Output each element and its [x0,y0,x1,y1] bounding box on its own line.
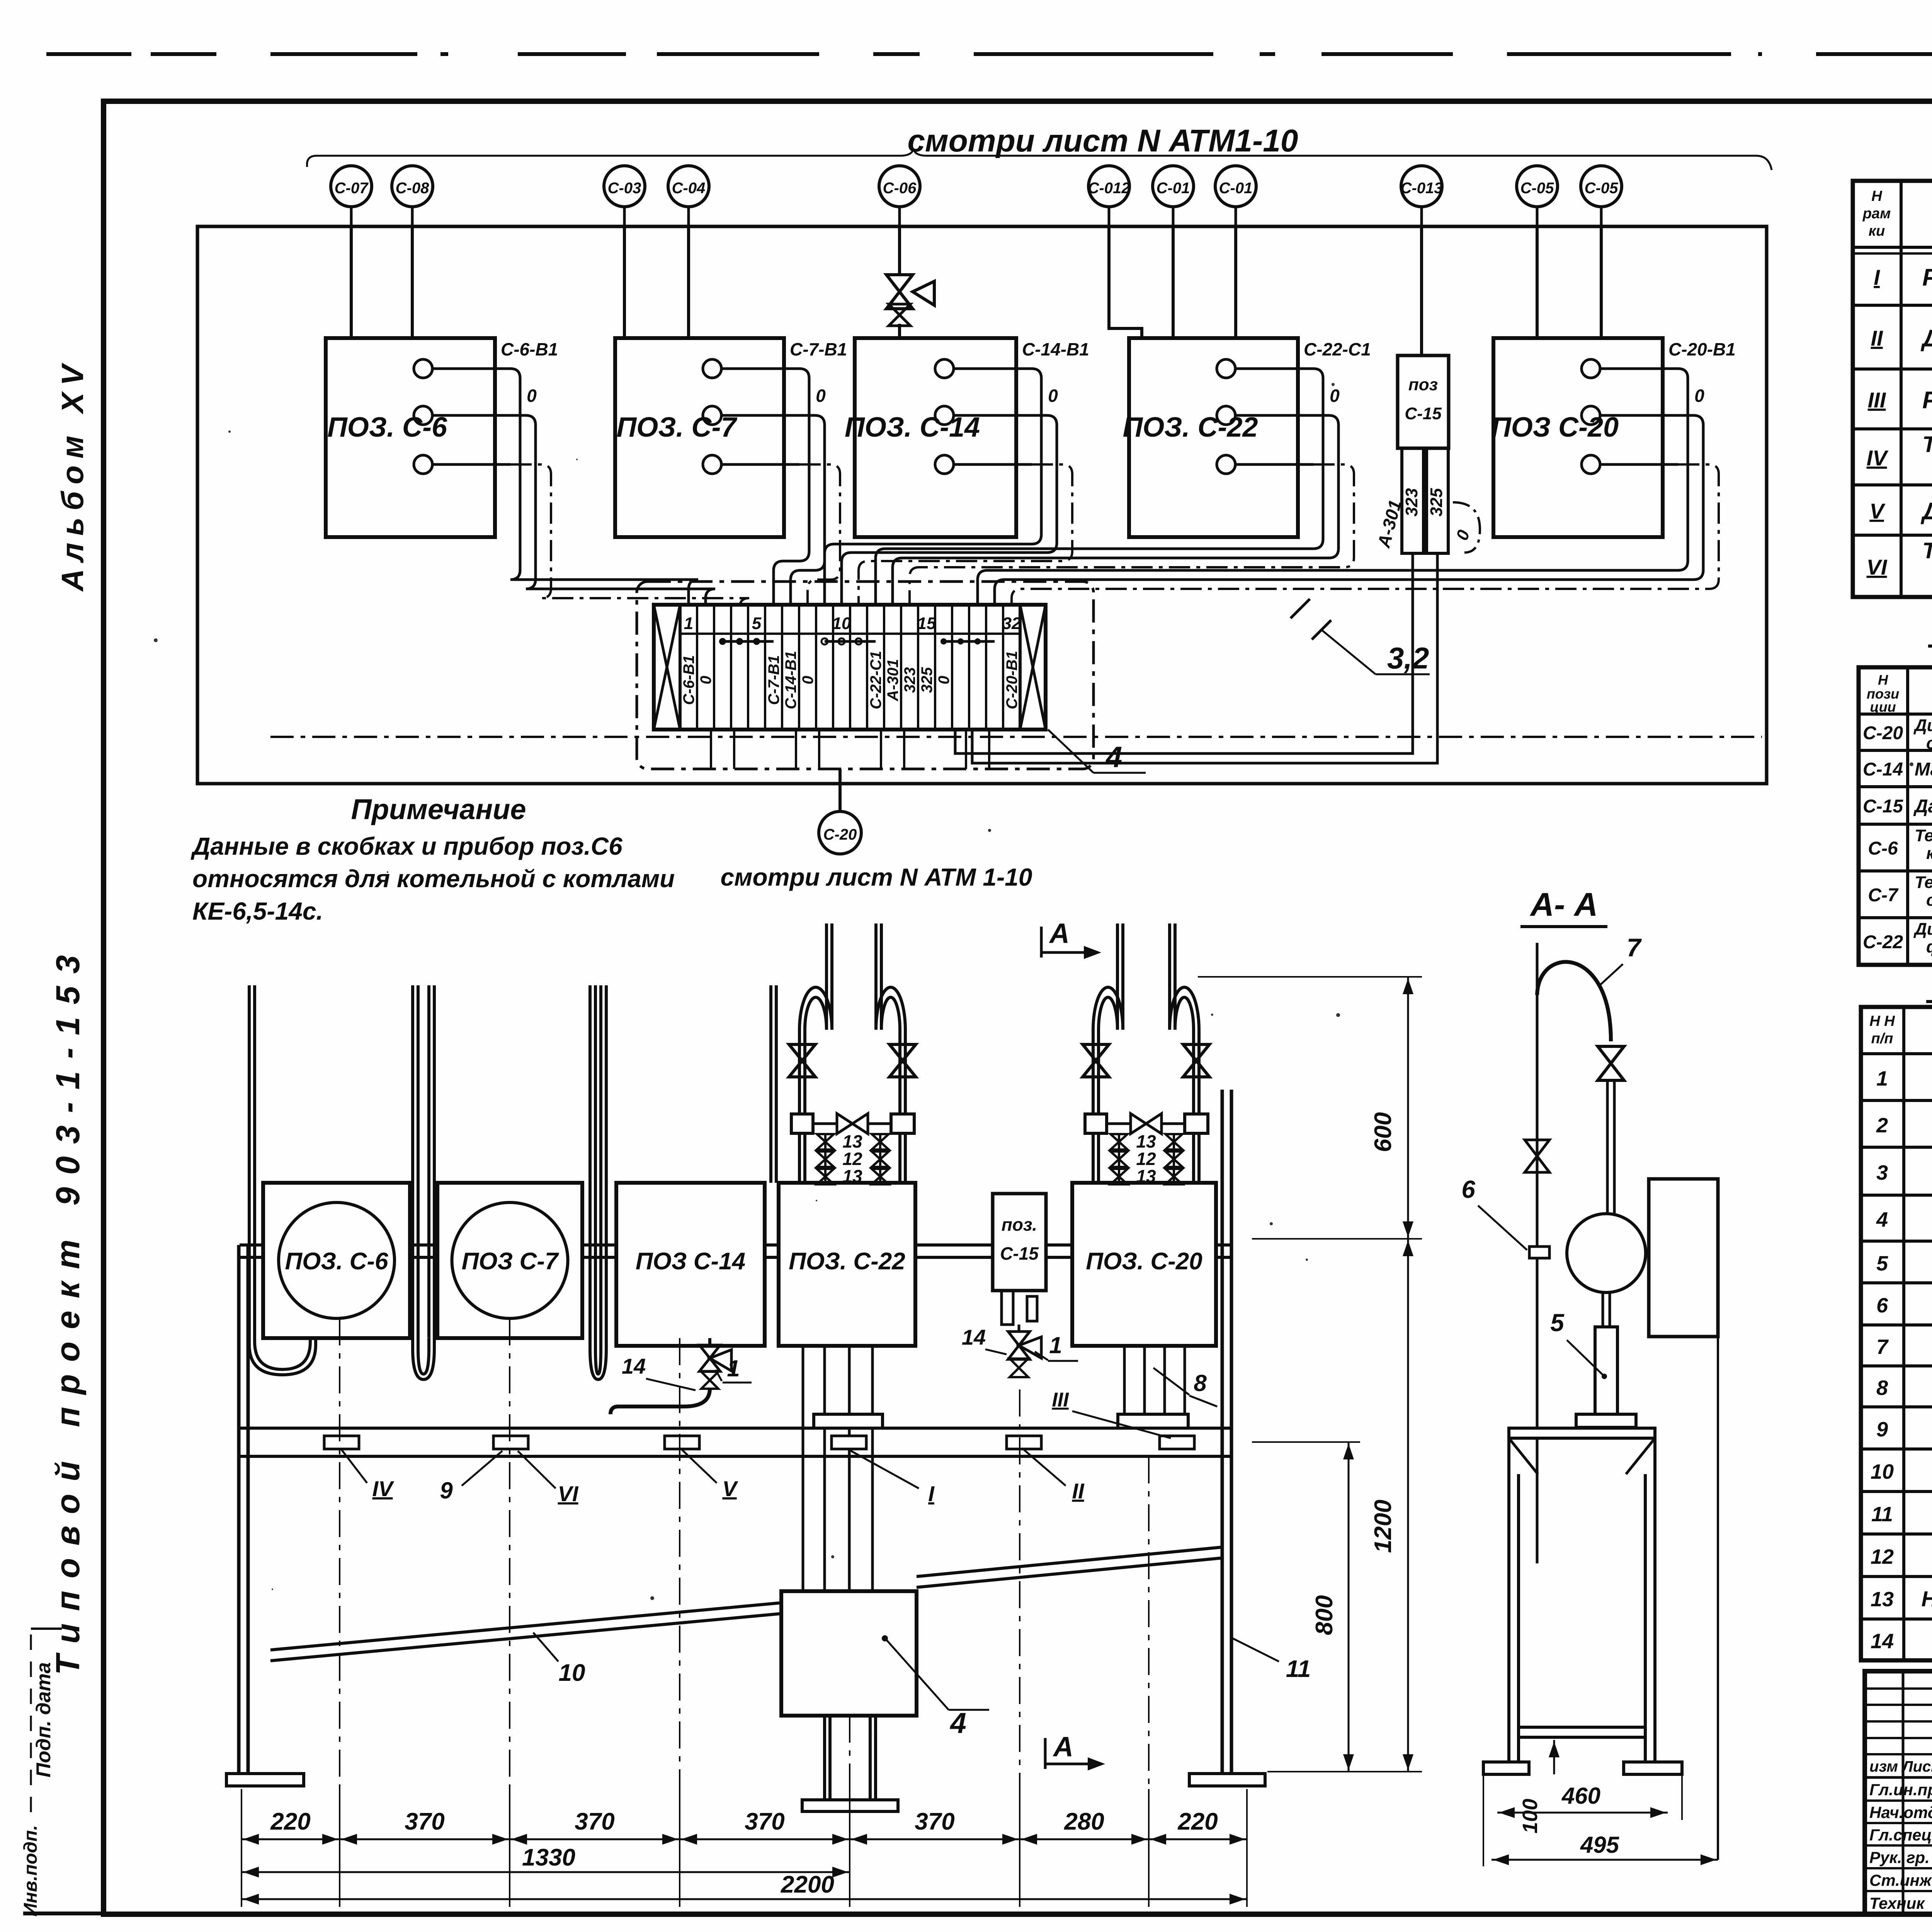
svg-text:I: I [1874,265,1880,289]
cable mark 3,2 with leader [1291,599,1310,618]
strip cell divider [798,605,800,730]
svg-text:НСВ 14х1/2 " труб: НСВ 14х1/2 " труб [1922,1587,1932,1611]
svg-text:С-013: С-013 [1401,180,1443,197]
instrument box ПОЗ. С-7 [615,338,784,537]
svg-text:Давление обратной сетевой в: Давление обратной сетевой воды [1920,498,1932,525]
instrument circle С-08 [392,166,433,207]
pipe loop between S-7 and S-14 [590,985,606,1379]
drain pipe item 11 (sloped right) [917,1547,1222,1577]
drain pipe item 10 (sloped) [270,1603,781,1650]
gooseneck arch left [799,987,832,1030]
svg-text:С-15: С-15 [1863,796,1903,817]
instrument box ПОЗ. С-14 [855,338,1016,537]
jumper group 3 [944,640,995,643]
svg-text:Данные в скобках и прибор поз: Данные в скобках и прибор поз.С6 [190,832,622,860]
svg-text:13: 13 [1871,1588,1894,1611]
strip cell divider [866,605,868,730]
svg-text:0: 0 [697,676,714,684]
supply pipes from above [1116,923,1119,1030]
svg-text:п/п: п/п [1871,1031,1893,1047]
terminal 2 of ПОЗ. С-6 [414,406,432,425]
svg-text:С-05: С-05 [1585,180,1618,197]
centerline S-14 [679,1338,680,1839]
svg-text:6: 6 [1461,1175,1475,1203]
svg-text:6: 6 [1876,1294,1888,1317]
svg-text:9: 9 [440,1478,453,1503]
title block frame [1865,1671,1932,1914]
svg-text:15: 15 [917,614,936,633]
svg-text:ПОЗ. С-6: ПОЗ. С-6 [327,412,447,443]
svg-text:С-6-В1: С-6-В1 [680,655,697,705]
wire C-01b to box S-22 [1234,226,1237,338]
A-A table top plate [1509,1428,1655,1438]
A-A riser pipe down to gauge [1606,1080,1609,1215]
svg-text:II: II [1871,326,1883,350]
strip cell divider [900,605,902,730]
scan speckles [576,459,578,460]
centerline S-6 [339,1318,340,1839]
front view box ПОЗ С-7 [437,1183,582,1338]
svg-text:Датчик-реле давления: Датчик-реле давления [1913,796,1932,817]
dimension 600 right side [1198,976,1422,978]
valve on right riser [889,1044,916,1077]
svg-text:V: V [1869,499,1886,523]
wire 0 run [995,415,1703,605]
svg-text:VI: VI [558,1481,579,1506]
table 2 frame [1859,667,1932,965]
svg-text:220: 220 [270,1808,310,1835]
svg-text:460: 460 [1561,1783,1600,1809]
svg-text:Н: Н [1878,672,1888,688]
svg-text:100: 100 [1519,1799,1542,1833]
valve on right riser [1183,1044,1209,1077]
terminal 2 of ПОЗ С-20 [1582,406,1600,425]
svg-text:Техник: Техник [1869,1894,1925,1912]
svg-text:323: 323 [901,667,918,693]
front view box poz S-15 [993,1194,1046,1291]
strip end cross right [1020,605,1046,730]
strip cell divider [730,605,732,730]
svg-text:III: III [1868,388,1886,412]
chart recorder circle of ПОЗ. С-6 [279,1202,395,1318]
gauge valve stack right [872,1134,889,1150]
svg-text:Альбом XV: Альбом XV [55,358,90,592]
svg-text:4: 4 [1105,741,1122,774]
strip cell divider [696,605,698,730]
svg-text:8: 8 [1194,1370,1207,1396]
centerline S-15 valve [1019,1389,1020,1839]
instrument circle С-01 [1153,166,1194,207]
terminal strip of junction box [654,605,1046,730]
centerline S-22 [849,1716,850,1839]
relay box poz S-15 [1398,355,1449,448]
svg-text:IV: IV [372,1476,395,1501]
dimension 1330 [241,1871,850,1873]
dimension line 220/370 row [241,1838,1247,1840]
table 1 frame [1853,181,1932,597]
svg-text:13: 13 [842,1166,862,1186]
wire dash-dot run [799,464,840,605]
svg-text:Манометр самопишущий: Манометр самопишущий [1915,759,1932,780]
terminal 3 of ПОЗ. С-7 [703,455,721,474]
svg-text:8: 8 [1876,1376,1888,1400]
svg-text:Н Н: Н Н [1869,1013,1895,1029]
svg-text:фонный самопишущий: фонный самопишущий [1926,937,1932,956]
svg-text:С-15: С-15 [1405,404,1442,423]
svg-text:С-14-В1: С-14-В1 [1022,339,1089,359]
clamp item 6 on impulse line [1529,1247,1549,1258]
svg-text:Расход пара на производство: Расход пара на производство [1922,264,1932,291]
svg-text:Дифманометр - расходомер: Дифманометр - расходомер [1913,716,1932,735]
svg-text:1330: 1330 [522,1844,575,1871]
svg-text:С-03: С-03 [608,180,641,197]
strip cell divider [1002,605,1004,730]
junction box bottom cable stubs [711,730,734,769]
terminal 2 of ПОЗ. С-14 [935,406,954,425]
wire C-08 to box S-6 [411,226,414,338]
instrument box ПОЗ. С-6 [326,338,495,537]
front view box ПОЗ. С-22 [779,1183,915,1346]
centerline S-20 [1148,1456,1150,1839]
dimension 2200 [241,1898,1247,1900]
brace line over instrument circles [307,149,1772,170]
svg-text:С-05: С-05 [1520,180,1554,197]
svg-text:ПОЗ. С-6: ПОЗ. С-6 [285,1248,388,1275]
svg-text:С-22: С-22 [1863,932,1903,952]
svg-text:2200: 2200 [781,1871,834,1898]
label 7 leader [1600,964,1623,985]
wire C-03 to box S-7 [623,226,626,338]
svg-text:С-04: С-04 [672,180,706,197]
svg-text:смотри лист N АТМ1-10: смотри лист N АТМ1-10 [907,123,1298,158]
svg-text:Ст.инж.: Ст.инж. [1869,1871,1932,1889]
wire С-20-В1 run [978,369,1688,605]
valve on left riser [789,1044,815,1077]
svg-text:9: 9 [1876,1418,1888,1441]
wire dash-dot run [859,464,1072,605]
left union [791,1114,813,1133]
svg-text:10: 10 [559,1660,585,1686]
svg-text:ПОЗ С-14: ПОЗ С-14 [636,1248,745,1275]
wire С-14-В1 run [825,369,1041,605]
svg-text:С-07: С-07 [335,180,369,197]
right rack base plate [1189,1774,1265,1786]
pipe right of S-14 [769,985,772,1183]
svg-text:1: 1 [1049,1332,1062,1358]
riser pipes [798,1030,801,1184]
A-A table left leg [1507,1438,1510,1762]
strip cell divider [747,605,749,730]
instrument box ПОЗ. С-22 [1129,338,1298,537]
wire С-6-В1 run [510,369,698,605]
jumper group 2 [825,640,876,643]
wire 0 run [893,415,1338,605]
dimension ticks and extension lines [241,1789,242,1907]
A-A extension lines bottom [1483,1774,1484,1866]
lower mounting belt [240,1427,1231,1430]
instrument circle C-20 [819,811,861,854]
svg-text:1200: 1200 [1370,1500,1396,1553]
svg-text:А: А [1049,918,1070,949]
valve on C-06 line [886,275,913,309]
upper mounting rail [240,1243,1231,1247]
svg-text:С-08: С-08 [396,180,429,197]
wire С-22-С1 run [876,369,1323,605]
A-A base plate left [1483,1762,1529,1774]
terminal 3 of ПОЗ. С-14 [935,455,954,474]
A-A stand item 5 [1595,1327,1617,1414]
A-A right extension line [1717,1337,1719,1860]
svg-text:С-7: С-7 [1868,885,1899,906]
svg-text:1: 1 [727,1355,740,1381]
A-A bend item 7 [1537,962,1611,1041]
svg-text:0: 0 [527,386,537,406]
collector box item 4 [781,1591,917,1716]
svg-text:800: 800 [1311,1595,1338,1635]
svg-text:изм: изм [1869,1758,1898,1775]
svg-text:370: 370 [915,1808,954,1835]
scan registration dashes top edge [46,52,131,56]
equalizing valve [813,1122,837,1125]
svg-text:С-20: С-20 [823,826,857,843]
svg-text:С-06: С-06 [883,180,917,197]
svg-text:2: 2 [1876,1114,1888,1137]
junction box item 4 outer dash-dot [637,582,1094,769]
strip cell divider [713,605,715,730]
terminal 3 of ПОЗ. С-22 [1217,455,1235,474]
svg-text:С-20-В1: С-20-В1 [1668,339,1736,359]
svg-text:Инв.подп.: Инв.подп. [20,1825,41,1917]
dimension 1200 right side [1407,1239,1409,1772]
right union [891,1114,914,1133]
svg-text:ПОЗ. С-7: ПОЗ. С-7 [616,412,737,443]
terminal 2 of ПОЗ. С-22 [1217,406,1235,425]
dash-dot bus through schematic [270,736,1762,738]
wire C-06 to box S-14 with valve [898,226,901,275]
svg-text:самопишущии: самопишущии [1926,891,1932,910]
wire from junction box to C-20 circle [838,769,842,811]
svg-text:Температура прямой и обратн: Температура прямой и обратной [1922,538,1932,563]
instrument box ПОЗ С-20 [1493,338,1663,537]
svg-text:14: 14 [622,1354,646,1378]
left union [1085,1114,1107,1133]
strip cell divider [781,605,783,730]
strip cell divider [951,605,953,730]
A-A back panel [1649,1179,1718,1337]
valve and drain under box S-14 [708,1338,711,1347]
collector legs [823,1716,826,1800]
svg-text:КЕ-6,5-14с.: КЕ-6,5-14с. [192,897,323,925]
svg-text:280: 280 [1064,1808,1104,1835]
wire C-07 to box S-6 [350,226,353,338]
right union [1185,1114,1208,1133]
strip cell divider [815,605,817,730]
dash-dot hook from S-15 [1453,502,1480,553]
wire C-013 to relay S-15 [1420,226,1423,355]
wire С-7-В1 run [774,369,809,605]
A-A lower crossbar [1519,1726,1645,1729]
svg-text:Дифманометр -расходомер силь-: Дифманометр -расходомер силь- [1913,920,1932,939]
A-A impulse line [1536,943,1539,1563]
collector base plate [802,1800,898,1811]
terminal 2 of ПОЗ. С-7 [703,406,721,425]
svg-text:3,2: 3,2 [1387,641,1429,675]
svg-text:370: 370 [575,1808,614,1835]
svg-text:12: 12 [1871,1545,1894,1568]
svg-text:поз.: поз. [1002,1214,1037,1235]
wire 0 run [842,415,1057,605]
strip cell divider [968,605,970,730]
wire 0 run [791,415,825,605]
instrument circle С-012 [1088,166,1129,207]
svg-text:325: 325 [1427,488,1446,517]
instrument circle С-06 [879,166,920,207]
svg-text:Подп. дата: Подп. дата [32,1662,55,1777]
svg-text:14: 14 [1871,1630,1894,1653]
strip cell divider [934,605,936,730]
svg-text:7: 7 [1627,933,1642,962]
label 10 leader [533,1633,558,1662]
instrument circle С-03 [604,166,645,207]
svg-text:Термометр манометричес-: Термометр манометричес- [1915,826,1932,845]
valve on A-A riser [1598,1046,1624,1080]
dimension 460 [1497,1812,1668,1814]
gooseneck arch left [1093,987,1123,1030]
wire dash-dot run [510,464,749,608]
terminal 3 of ПОЗ С-20 [1582,455,1600,474]
strip cell divider [985,605,987,730]
impulse pipes S-22 to collector [802,1347,804,1591]
gauge valve stack left [817,1134,834,1150]
svg-text:Нач.отд: Нач.отд [1869,1803,1932,1821]
chart recorder circle of ПОЗ С-7 [452,1202,568,1318]
terminal 1 of ПОЗ С-20 [1582,359,1600,378]
svg-text:А: А [1053,1731,1073,1762]
svg-text:А-301: А-301 [884,659,901,702]
dimension 800 [1252,1441,1360,1443]
strip number band line [680,633,1020,635]
centerline S-7 [509,1318,510,1839]
svg-text:поз: поз [1408,375,1438,394]
right rack upright [1221,1090,1224,1774]
svg-text:370: 370 [405,1808,444,1835]
gauge valve stack left [1111,1134,1128,1150]
svg-text:С-01: С-01 [1219,180,1253,197]
instrument circle С-05 [1517,166,1558,207]
svg-text:4: 4 [949,1707,966,1739]
tag frames on belt [324,1436,359,1449]
svg-text:С-6-В1: С-6-В1 [501,339,558,359]
svg-text:С-15: С-15 [1000,1243,1039,1264]
valve on A-A impulse line [1525,1140,1549,1172]
svg-text:13: 13 [1136,1166,1156,1186]
riser pipes [1092,1030,1095,1184]
svg-text:А- А: А- А [1530,886,1598,923]
svg-text:сильфонный самопишущий: сильфонный самопишущий [1926,734,1932,753]
svg-text:Рук. гр.: Рук. гр. [1869,1849,1930,1867]
svg-text:Типовой проект 903-1-153: Типовой проект 903-1-153 [49,943,87,1675]
svg-text:ции: ции [1870,699,1896,715]
strip cell divider [883,605,885,730]
strip end cross left [654,605,680,730]
jumper group 1 [723,640,774,643]
section mark A top [1040,927,1043,957]
svg-text:10: 10 [832,614,851,633]
svg-text:VI: VI [1867,555,1888,579]
left margin small labels [31,1628,62,1630]
wires from 323/325 down to junction box [955,553,1413,753]
svg-text:10: 10 [1871,1460,1894,1483]
svg-text:5: 5 [1550,1309,1565,1337]
svg-text:С-012: С-012 [1088,180,1130,197]
svg-text:11: 11 [1286,1656,1311,1682]
gooseneck arch right [1170,987,1199,1030]
svg-text:370: 370 [745,1808,784,1835]
terminal 3 of ПОЗ. С-6 [414,455,432,474]
svg-text:С-20-В1: С-20-В1 [1003,651,1020,709]
svg-text:1: 1 [684,614,693,633]
A-A pedestal plate [1576,1414,1636,1427]
svg-text:0: 0 [1048,386,1058,406]
svg-text:ПОЗ С-7: ПОЗ С-7 [462,1248,559,1275]
svg-text:0: 0 [1330,386,1340,406]
svg-text:кий самопишущий.: кий самопишущий. [1926,844,1932,863]
A-A table gussets [1509,1438,1538,1474]
svg-text:относятся для котельной с к: относятся для котельной с котлами [192,865,675,893]
valve 14/1 under S-15 [1018,1325,1020,1332]
strip cell divider [849,605,851,730]
svg-text:7: 7 [1876,1335,1889,1359]
svg-text:С-14: С-14 [1863,759,1903,780]
label 11 leader [1233,1638,1279,1662]
svg-text:32: 32 [1002,614,1021,633]
wire C-05b to box S-20 [1600,226,1603,338]
equalizing valve [1107,1122,1131,1125]
svg-text:ПОЗ. С-20: ПОЗ. С-20 [1086,1248,1202,1275]
svg-text:Примечание: Примечание [351,793,526,825]
svg-text:495: 495 [1580,1832,1620,1858]
svg-text:Термометр манометрический: Термометр манометрический [1915,873,1932,892]
pipe above box S-6 [249,985,316,1375]
svg-text:14: 14 [962,1325,986,1349]
svg-text:ки: ки [1869,223,1885,239]
pipes below S-20 to pedestal [1123,1347,1126,1414]
svg-text:0: 0 [799,676,816,684]
svg-text:0: 0 [1694,386,1704,406]
svg-text:I: I [928,1481,935,1506]
front view box ПОЗ. С-20 [1072,1183,1216,1346]
instrument circle С-04 [668,166,709,207]
wire dash-dot run [910,464,1354,605]
svg-text:Давление обратной сетевой в: Давление обратной сетевой воды [1920,325,1932,352]
svg-text:5: 5 [752,614,762,633]
A-A gauge stem [1602,1293,1604,1327]
gauge valve stack right [1165,1134,1182,1150]
S-15 bottom stubs [1002,1291,1013,1325]
pipe loop between S-6 and S-7 [413,985,434,1379]
front view box ПОЗ. С-6 [263,1183,410,1338]
svg-text:С-22-С1: С-22-С1 [1304,339,1371,359]
svg-text:Лист: Лист [1901,1758,1932,1775]
A-A table right leg [1653,1438,1656,1762]
wire C-012 to box S-22 [1109,226,1142,338]
svg-text:323: 323 [1402,488,1421,516]
svg-text:1: 1 [1876,1067,1888,1090]
svg-text:С-22-С1: С-22-С1 [867,651,884,709]
valve on left riser [1083,1044,1109,1077]
terminal 1 of ПОЗ. С-6 [414,359,432,378]
svg-text:ПОЗ. С-22: ПОЗ. С-22 [789,1248,905,1275]
